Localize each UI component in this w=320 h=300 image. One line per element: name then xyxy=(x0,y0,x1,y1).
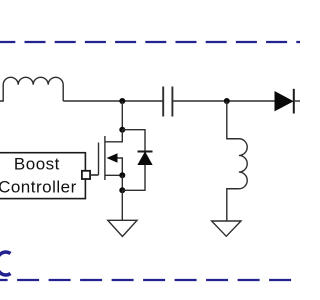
wire switch node down to MOSFET drain xyxy=(121,101,123,130)
wire source to bottom junction xyxy=(121,175,123,190)
watermark letter C (cut off at left edge) xyxy=(0,252,10,275)
svg-text:Controller: Controller xyxy=(0,178,77,197)
bottom dashed boundary line xyxy=(0,279,300,281)
gate lead xyxy=(90,174,98,176)
diode D1 (output, pointing right) xyxy=(275,89,294,114)
inductor L1 (input, horizontal) xyxy=(0,77,63,101)
wire capacitor to diode xyxy=(172,100,275,102)
transistor Q1 (N-MOSFET) xyxy=(90,130,122,180)
inductor L2 (vertical) xyxy=(239,139,247,189)
top dashed boundary line xyxy=(0,41,300,43)
pin: controller gate-drive output xyxy=(82,171,90,179)
node: bottom junction xyxy=(119,187,125,193)
node: output junction xyxy=(224,98,230,104)
svg-text:Boost: Boost xyxy=(14,155,60,174)
drain lead xyxy=(105,130,122,142)
wire output junction down to inductor L2 xyxy=(227,101,239,139)
op-amp U1: Boost Controller box xyxy=(0,153,85,199)
wire bottom junction to ground xyxy=(121,190,123,220)
gate bar xyxy=(98,143,100,176)
node: switch node junction xyxy=(119,98,125,104)
node: source junction xyxy=(119,172,125,178)
capacitor C1 xyxy=(163,87,172,117)
wire pin to gate xyxy=(90,174,98,176)
wire inductor L2 to ground xyxy=(227,189,239,221)
source lead xyxy=(105,174,122,176)
node: MOSFET drain / body-diode top junction xyxy=(119,127,125,133)
ground (under L2) xyxy=(212,221,241,236)
body arrow of Q1 xyxy=(107,153,118,163)
wire body-diode branch xyxy=(122,130,145,191)
wire after diode to right edge xyxy=(294,100,300,102)
wire inductor to capacitor xyxy=(63,100,163,102)
channel bar xyxy=(104,136,106,180)
diode D2 (body diode, pointing up) xyxy=(138,152,153,165)
body lead xyxy=(118,158,123,175)
ground (under MOSFET) xyxy=(108,220,137,236)
